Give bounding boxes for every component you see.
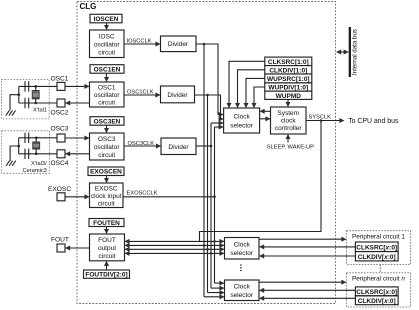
svg-text:CLKSRC[x:0]: CLKSRC[x:0] (356, 245, 397, 252)
svg-text:oscillator: oscillator (94, 92, 120, 99)
svg-text:Internal data bus: Internal data bus (351, 29, 358, 75)
svg-text:FOUT: FOUT (51, 237, 69, 244)
svg-text:EXOSCCLK: EXOSCCLK (127, 191, 158, 197)
svg-text:circuit: circuit (98, 152, 115, 159)
svg-text:WUPMD: WUPMD (276, 93, 302, 100)
svg-text:OSC1: OSC1 (51, 76, 69, 83)
svg-text:selector: selector (230, 123, 254, 130)
svg-text:EXOSCEN: EXOSCEN (90, 169, 122, 176)
svg-text:clock input: clock input (91, 193, 122, 200)
svg-text:IOSCEN: IOSCEN (94, 16, 119, 23)
svg-text:FOUT: FOUT (98, 237, 116, 244)
svg-text:IOSC: IOSC (99, 34, 115, 41)
svg-text:Clock: Clock (234, 241, 251, 248)
svg-text:CLKSRC[1:0]: CLKSRC[1:0] (268, 59, 309, 66)
svg-text:OSC2: OSC2 (51, 110, 69, 117)
svg-text:CLKDIV[1:0]: CLKDIV[1:0] (269, 67, 307, 74)
svg-text:To CPU and bus: To CPU and bus (348, 118, 399, 125)
svg-text:oscillator: oscillator (94, 144, 120, 151)
svg-text:SLEEP, WAKE-UP: SLEEP, WAKE-UP (267, 144, 314, 150)
svg-text:EXOSC: EXOSC (95, 186, 118, 193)
svg-text:Peripheral circuit n: Peripheral circuit n (352, 276, 405, 283)
svg-text:Clock: Clock (233, 114, 250, 121)
svg-text:clock: clock (281, 118, 297, 125)
svg-text:OSC3EN: OSC3EN (94, 118, 121, 125)
svg-text:circuit: circuit (98, 201, 115, 208)
svg-text:controller: controller (275, 125, 303, 132)
svg-text:OSC1: OSC1 (98, 85, 116, 92)
svg-text:output: output (98, 245, 116, 252)
svg-text:CLKSRC[x:0]: CLKSRC[x:0] (356, 289, 397, 296)
svg-text:OSC3: OSC3 (51, 126, 69, 133)
svg-text:WUPDIV[1:0]: WUPDIV[1:0] (268, 85, 308, 92)
svg-text:SYSCLK: SYSCLK (309, 115, 332, 121)
svg-text:CLKDIV[x:0]: CLKDIV[x:0] (358, 254, 396, 261)
svg-text:CLG: CLG (80, 2, 97, 11)
svg-text:X'tal3/: X'tal3/ (31, 161, 47, 167)
svg-text:WUPSRC[1:0]: WUPSRC[1:0] (267, 76, 310, 83)
svg-text:Divider: Divider (167, 92, 188, 99)
svg-text:oscillator: oscillator (94, 42, 120, 49)
svg-text:OSC3: OSC3 (98, 136, 116, 143)
svg-text:Divider: Divider (168, 144, 189, 151)
svg-text:selector: selector (230, 250, 254, 257)
svg-text:X'tal1: X'tal1 (33, 107, 47, 113)
svg-text:Clock: Clock (234, 284, 251, 291)
svg-text:EXOSC: EXOSC (48, 186, 71, 193)
svg-text:OSC4: OSC4 (51, 160, 69, 167)
svg-text:Divider: Divider (168, 41, 189, 48)
svg-text:Peripheral circuit 1: Peripheral circuit 1 (352, 233, 405, 240)
svg-text:circuit: circuit (98, 100, 115, 107)
svg-text:CLKDIV[x:0]: CLKDIV[x:0] (358, 298, 396, 305)
svg-text:selector: selector (230, 292, 254, 299)
svg-text:Ceramic3: Ceramic3 (23, 168, 47, 174)
svg-text:FOUTDIV[2:0]: FOUTDIV[2:0] (85, 272, 127, 279)
svg-text:circuit: circuit (99, 253, 116, 260)
svg-text:System: System (277, 110, 299, 117)
svg-text:FOUTEN: FOUTEN (93, 220, 120, 227)
svg-text:circuit: circuit (98, 50, 115, 57)
svg-text:OSC1EN: OSC1EN (94, 66, 121, 73)
